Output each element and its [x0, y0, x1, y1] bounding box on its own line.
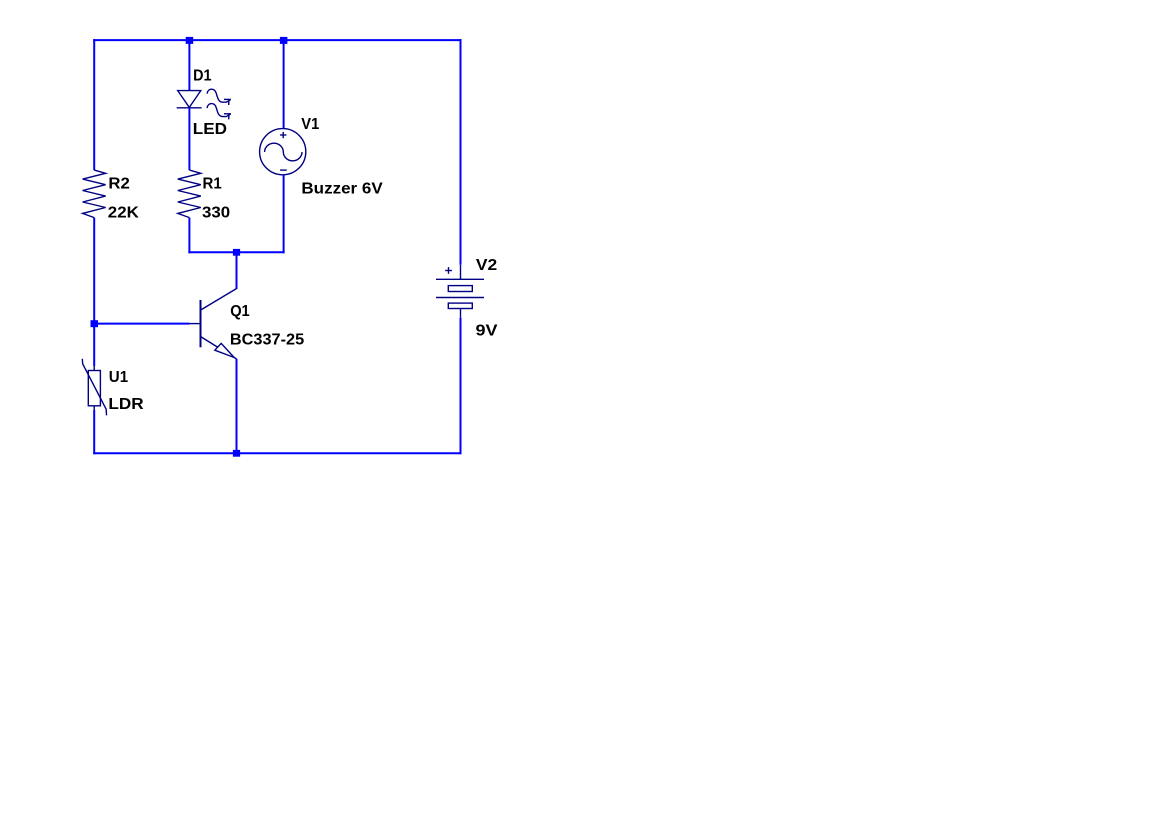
wire node A to U1 — [93, 324, 95, 366]
junction top left (D1 branch) — [186, 37, 194, 44]
svg-text:R2: R2 — [108, 175, 130, 192]
photoresistor U1 — [82, 359, 106, 416]
svg-text:BC337-25: BC337-25 — [230, 332, 304, 349]
wire left vertical (top corner to R2) — [93, 39, 95, 170]
wire R2 bottom to node A — [93, 218, 95, 324]
svg-text:LDR: LDR — [108, 396, 144, 413]
wire top to buzzer V1 — [283, 40, 285, 130]
svg-text:D1: D1 — [193, 67, 211, 84]
wire top to D1 — [188, 40, 190, 91]
wire mid horizontal (R1/buzzer to collector) — [188, 251, 284, 253]
wire R1 bottom to mid rail — [188, 218, 190, 254]
wire top horizontal — [93, 39, 461, 41]
wire right vertical (top corner to battery) — [460, 39, 462, 265]
resistor R1 — [178, 170, 201, 218]
resistor R2 — [83, 170, 106, 218]
junction bottom (emitter to rail) — [233, 450, 240, 457]
svg-text:V1: V1 — [301, 116, 319, 133]
wire emitter vertical — [236, 359, 238, 454]
wire U1 bottom to bottom rail — [93, 406, 95, 410]
wire D1 to R1 — [188, 108, 190, 170]
svg-text:LED: LED — [193, 121, 227, 138]
svg-text:Q1: Q1 — [230, 303, 250, 320]
node A junction (base node) — [91, 320, 99, 327]
svg-text:9V: 9V — [476, 322, 498, 339]
wire collector vertical — [236, 252, 238, 289]
svg-text:V2: V2 — [476, 257, 497, 274]
transistor Q1 — [189, 289, 237, 360]
LED light arrow 1 — [207, 89, 231, 105]
junction top right (buzzer branch) — [280, 37, 288, 44]
svg-text:R1: R1 — [203, 175, 222, 192]
wire battery to bottom rail — [460, 318, 462, 455]
svg-text:330: 330 — [202, 205, 230, 222]
svg-text:U1: U1 — [109, 369, 128, 386]
wire buzzer to mid rail — [283, 175, 285, 254]
wire bottom horizontal rail — [93, 452, 461, 454]
wire base horizontal — [94, 323, 189, 325]
LED light arrow 2 — [207, 104, 231, 120]
svg-text:Buzzer 6V: Buzzer 6V — [301, 181, 383, 198]
svg-text:22K: 22K — [108, 204, 139, 221]
junction mid (collector node) — [233, 249, 240, 256]
battery V2 — [436, 265, 484, 318]
diode D1 (LED) — [177, 91, 202, 108]
buzzer V1 — [260, 129, 306, 175]
